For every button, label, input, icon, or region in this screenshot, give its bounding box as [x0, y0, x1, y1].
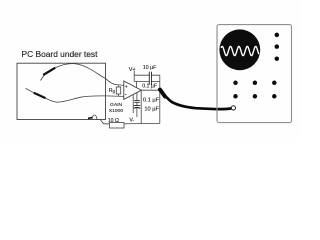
svg-text:V+: V+ [129, 67, 136, 73]
svg-text:X1000: X1000 [109, 108, 123, 114]
capacitor C4 (10uF polarized) on V- chain [134, 102, 140, 117]
knob row 1 right [272, 81, 277, 86]
svg-text:PC Board under test: PC Board under test [22, 49, 99, 59]
op-amp reference pin wire [140, 91, 142, 124]
V+ pin wire [136, 82, 138, 88]
probe lead P1 wire (top) [41, 75, 45, 81]
waveform trace [221, 46, 259, 55]
ground rail wire [124, 122, 160, 124]
capacitor C3 (0.1uF) on V- chain [134, 93, 139, 103]
knob K2 [275, 44, 280, 49]
svg-text:Rg: Rg [109, 88, 116, 94]
coax cable thick end [160, 90, 165, 97]
knob row 1 mid [253, 81, 258, 86]
knob row 2 right [272, 94, 277, 99]
knob row 1 left [233, 81, 238, 86]
op-amp U1 triangle [124, 81, 142, 99]
wire from P2 to amplifier - input [46, 96, 124, 102]
output shield vertical wire [159, 75, 161, 123]
V+ rail left vertical wire [133, 71, 135, 82]
svg-text:0.1 µF: 0.1 µF [143, 97, 160, 103]
ground probe tip [88, 117, 92, 120]
PC board box [17, 63, 106, 119]
V- pin wire [132, 95, 134, 113]
op-amp output wire [141, 89, 159, 91]
capacitor C1 plates [149, 72, 151, 79]
knob row 2 left [233, 94, 238, 99]
svg-text:GAIN: GAIN [110, 102, 122, 108]
svg-text:-: - [125, 92, 127, 98]
svg-text:10 µF: 10 µF [144, 107, 159, 113]
knob K3 [275, 56, 280, 61]
resistor Rg box [116, 87, 120, 94]
V+ rail top wire with gap [134, 74, 160, 76]
oscilloscope box [217, 25, 292, 123]
probe tip P2 [34, 93, 46, 98]
capacitor C2 plates [149, 79, 151, 85]
resistor R1 10 ohm box [110, 123, 125, 128]
svg-text:10 µF: 10 µF [143, 65, 156, 71]
svg-text:+: + [125, 84, 128, 90]
knob K1 [275, 33, 280, 38]
svg-text:0.1 µF: 0.1 µF [142, 84, 157, 90]
ground wire loop through board edge [92, 115, 110, 124]
BNC ring at scope [231, 106, 235, 110]
knob row 2 mid [253, 94, 258, 99]
coax cable to scope [160, 90, 231, 109]
svg-text:10 Ω: 10 Ω [108, 118, 119, 124]
wire from P1 to amplifier + input [56, 64, 124, 86]
V+ rail bottom wire with gap [134, 81, 160, 83]
Rg stub wires [118, 86, 120, 97]
probe lead P2 wire (bottom) [26, 88, 34, 92]
probe tip P1 [43, 68, 55, 75]
oscilloscope CRT screen [219, 29, 260, 70]
svg-text:V-: V- [129, 118, 134, 124]
